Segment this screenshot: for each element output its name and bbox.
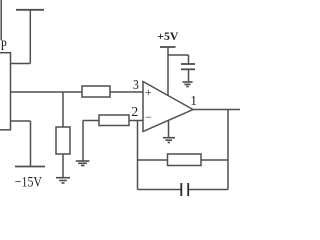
svg-text:2: 2: [131, 105, 138, 120]
svg-text:+: +: [145, 85, 152, 99]
svg-text:P: P: [1, 38, 7, 54]
svg-text:+5V: +5V: [157, 29, 178, 43]
svg-text:−: −: [145, 110, 152, 124]
svg-text:3: 3: [133, 78, 139, 93]
svg-text:1: 1: [190, 93, 197, 108]
svg-text:−15V: −15V: [15, 174, 42, 190]
